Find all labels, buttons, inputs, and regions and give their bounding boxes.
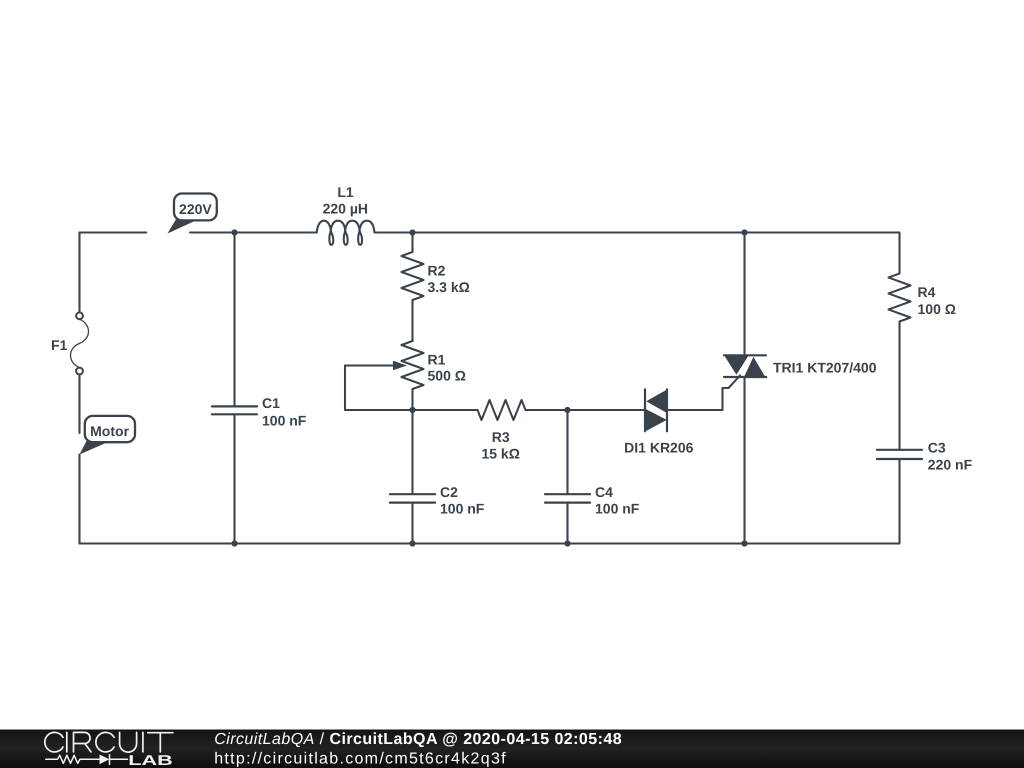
node top R2 — [409, 229, 415, 235]
svg-text:220 nF: 220 nF — [928, 456, 973, 472]
wire bottom rail — [80, 542, 900, 544]
svg-text:15 kΩ: 15 kΩ — [481, 445, 519, 461]
footer bar — [0, 730, 1024, 768]
wire triac anode upper — [743, 233, 745, 356]
triac TRI1 — [724, 355, 877, 377]
node bottom C4 — [564, 540, 570, 546]
letter C — [96, 732, 114, 751]
svg-text:3.3 kΩ: 3.3 kΩ — [428, 279, 470, 295]
svg-text:220V: 220V — [179, 201, 212, 217]
wire R4 to C3 — [898, 322, 900, 450]
svg-text:100 Ω: 100 Ω — [918, 301, 956, 317]
capacitor C1 — [212, 395, 307, 429]
wire C1 branch upper — [233, 233, 235, 407]
svg-text:CircuitLabQA / CircuitLabQA @: CircuitLabQA / CircuitLabQA @ 2020-04-15… — [214, 731, 622, 748]
node bottom C1 — [231, 540, 237, 546]
svg-text:R4: R4 — [918, 284, 936, 300]
svg-text:R2: R2 — [428, 263, 446, 279]
wire C2 branch lower — [411, 503, 413, 544]
svg-text:100 nF: 100 nF — [595, 500, 640, 516]
letter I — [66, 732, 68, 752]
node bottom C2 — [409, 540, 415, 546]
node R3 C4 — [564, 407, 570, 413]
node wiper R3 — [409, 407, 415, 413]
letter U — [120, 732, 137, 752]
letter T — [148, 733, 173, 752]
svg-text:DI1 KR206: DI1 KR206 — [624, 440, 693, 456]
svg-text:L1: L1 — [337, 184, 354, 200]
svg-text:100 nF: 100 nF — [440, 500, 485, 516]
wire R3 to C4 node — [526, 409, 646, 411]
wire R2 to R1 — [411, 300, 413, 341]
resistor R4 — [889, 274, 956, 322]
svg-text:C3: C3 — [928, 440, 946, 456]
capacitor C4 — [545, 484, 640, 516]
svg-text:100 nF: 100 nF — [262, 412, 307, 428]
wire left vertical below fuse — [78, 374, 80, 433]
logo resistor-diode — [46, 755, 128, 765]
fuse F1 — [51, 312, 89, 374]
wire top rail main — [190, 231, 317, 233]
wire left vertical upper — [78, 233, 80, 313]
svg-text:http://circuitlab.com/cm5t6cr4: http://circuitlab.com/cm5t6cr4k2q3f — [214, 750, 507, 767]
node top C1 — [231, 229, 237, 235]
wire C3 branch lower — [898, 459, 900, 543]
svg-text:C4: C4 — [595, 484, 613, 500]
wire C2 branch upper — [411, 410, 413, 494]
potentiometer R1 — [402, 341, 466, 389]
CircuitLab logo — [45, 732, 173, 768]
wire C1 branch lower — [233, 415, 235, 544]
wire triac anode lower — [743, 377, 745, 544]
wire R2 branch upper — [411, 233, 413, 253]
capacitor C2 — [390, 484, 485, 516]
wire top rail left segment — [80, 231, 147, 233]
diac DI1 — [624, 389, 693, 455]
footer credit text — [214, 731, 622, 767]
capacitor C3 — [877, 440, 973, 473]
svg-text:C1: C1 — [262, 395, 280, 411]
resistor R3 — [478, 400, 526, 461]
letter I — [142, 732, 144, 752]
wire C4 branch lower — [566, 503, 568, 544]
letter R — [74, 732, 92, 752]
svg-text:Motor: Motor — [90, 423, 129, 439]
svg-text:500 Ω: 500 Ω — [428, 368, 466, 384]
wire node to R3 — [413, 409, 478, 411]
node top triac — [741, 229, 747, 235]
flag Motor — [80, 416, 136, 455]
svg-text:C2: C2 — [440, 484, 458, 500]
wiper arrow R1 — [345, 361, 407, 371]
svg-text:R3: R3 — [492, 429, 510, 445]
wire R4 branch upper — [898, 233, 900, 274]
inductor L1 — [317, 184, 375, 245]
svg-text:TRI1 KT207/400: TRI1 KT207/400 — [773, 360, 877, 376]
svg-text:220 µH: 220 µH — [323, 200, 368, 216]
wire diac to gate — [667, 376, 740, 411]
wire R1 to node — [411, 389, 413, 410]
voltage flag 220V — [168, 194, 217, 234]
wire C4 branch upper — [566, 410, 568, 494]
wire left vertical bottom — [78, 455, 80, 544]
svg-text:R1: R1 — [428, 351, 446, 367]
svg-text:LAB: LAB — [128, 753, 173, 768]
svg-text:F1: F1 — [51, 337, 68, 353]
resistor R2 — [402, 252, 470, 300]
letter C — [45, 732, 63, 751]
wire wiper return — [345, 366, 413, 411]
node bottom triac — [741, 540, 747, 546]
